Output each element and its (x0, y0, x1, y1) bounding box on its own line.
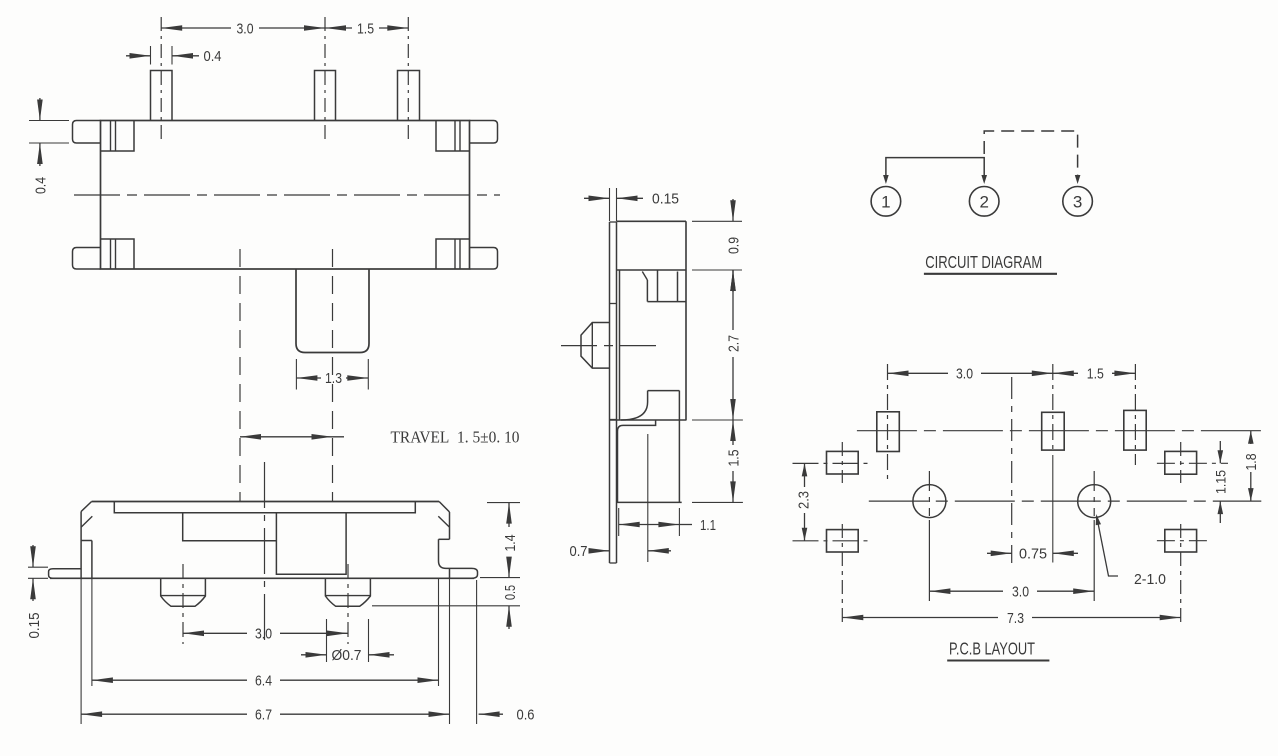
svg-text:1: 1 (881, 192, 890, 211)
dimension 0.75 (pcb) (987, 546, 1078, 563)
pcb: pad 1 (top row left) (877, 412, 900, 452)
svg-text:1.5: 1.5 (1087, 366, 1104, 383)
dimension 0.7 (side view) (570, 543, 672, 560)
top view: pin 2 centerline (324, 17, 326, 139)
side view: knob centerline (561, 345, 663, 347)
svg-text:1.8: 1.8 (1243, 454, 1260, 471)
svg-text:2-1.0: 2-1.0 (1134, 571, 1166, 588)
circuit: arrow at pin 2 (981, 175, 987, 184)
top view: bottom-right inner tab (436, 239, 470, 269)
pcb: pad 2 (top row middle) (1042, 412, 1065, 450)
dimension 0.4 (tab height, left) (29, 98, 69, 194)
svg-text:1.3: 1.3 (325, 370, 342, 387)
dimension 1.4 (body height) (480, 503, 520, 578)
dimension 1.8 (pcb right) (1243, 431, 1260, 501)
pcb: left pads vertical centerlines (841, 442, 843, 626)
side view: terminal centerline (647, 434, 649, 562)
dimension 3.0 (pcb pad pitch) (888, 366, 1053, 383)
front view: right side wall and step (439, 512, 450, 578)
pcb: left upper pad centerline (793, 462, 868, 464)
front view: left side wall and step (81, 512, 92, 579)
side view: body bottom shoulder (609, 419, 743, 421)
svg-text:1.15: 1.15 (1212, 470, 1228, 494)
svg-text:2: 2 (979, 192, 988, 211)
svg-text:0.4: 0.4 (32, 177, 49, 194)
pcb: holes row centerline (869, 500, 1262, 502)
dimension 0.5 (peg height) (372, 585, 520, 629)
top view: bottom-left outer mounting tab (73, 248, 101, 270)
svg-text:3.0: 3.0 (237, 20, 254, 37)
front view: slider slot window (183, 513, 277, 541)
svg-text:3.0: 3.0 (956, 366, 973, 383)
side view: top terminal pin bent over (642, 270, 686, 302)
pcb: central vertical centerline (1011, 377, 1013, 563)
dimension diameter 0.7 (peg) (301, 647, 394, 664)
dimension 3.0 (top view pin pitch) (161, 20, 325, 37)
pcb: left lower pad centerline (793, 540, 868, 542)
pcb: right lower pad centerline (1157, 540, 1207, 542)
pcb: hole vertical centerlines (929, 471, 1094, 601)
top view: terminal pin 1 (151, 71, 173, 121)
svg-text:3.0: 3.0 (1012, 584, 1029, 601)
circuit: terminal 3 circle (1063, 187, 1093, 217)
dimension 6.4 (front view) (92, 673, 439, 690)
pcb: right upper pad (1165, 451, 1197, 474)
top view: top-right inner tab (436, 121, 470, 152)
pcb: top pads row centerline (857, 430, 1261, 432)
top view: terminal pin 2 (315, 71, 336, 121)
svg-text:0.5: 0.5 (502, 585, 519, 600)
top view: bottom-right outer mounting tab (470, 248, 498, 270)
dimension 1.5 (pcb pad pitch) (1053, 366, 1136, 383)
dimension 3.0 (peg pitch) (183, 626, 348, 643)
svg-text:0.9: 0.9 (725, 237, 742, 254)
dimension 0.15 (lead standoff) (26, 545, 48, 639)
top view: pin 3 centerline (407, 17, 409, 139)
side view: metal cover plate (610, 222, 617, 563)
svg-text:0.75: 0.75 (1019, 546, 1047, 563)
side view: body top edge (617, 220, 743, 222)
svg-text:1.5: 1.5 (357, 20, 374, 37)
pcb: pad 1 vertical centerline (887, 364, 889, 483)
front view: peg 2 centerline (347, 564, 349, 644)
svg-text:1.4: 1.4 (502, 535, 519, 552)
pcb: locating hole left (1.0 dia) (913, 485, 946, 518)
dimension 1.5 (terminal height) (725, 420, 742, 502)
front view: right gull-wing lead (446, 568, 478, 578)
svg-text:0.7: 0.7 (570, 543, 588, 560)
side view: body left edge (619, 270, 621, 420)
svg-text:7.3: 7.3 (1007, 610, 1024, 627)
side view: body shoulder (617, 269, 742, 271)
top view: bottom-left inner tab (101, 239, 135, 269)
top view: knob centerline (travel end) (332, 249, 334, 502)
pcb: pad 3 vertical centerline (1134, 364, 1136, 465)
front view: body top edge and chamfers (81, 502, 449, 528)
pcb: right lower pad (1165, 530, 1197, 553)
front view: body bottom baseline (50, 577, 474, 579)
pcb: pad 2 vertical centerline (1052, 364, 1054, 563)
dimension travel arrows (240, 434, 344, 440)
dimension 0.15 (plate thickness) (584, 188, 679, 221)
side view: bottom terminal block (618, 391, 743, 503)
side view: body right edge (685, 221, 687, 420)
label P.C.B LAYOUT (947, 639, 1049, 661)
svg-text:1.5: 1.5 (725, 450, 742, 467)
svg-text:1.1: 1.1 (700, 517, 716, 534)
label CIRCUIT DIAGRAM (924, 252, 1057, 274)
side view: middle terminal pin (621, 391, 679, 420)
svg-text:0.15: 0.15 (26, 613, 43, 639)
svg-text:TRAVEL 1. 5±0. 10: TRAVEL 1. 5±0. 10 (391, 427, 520, 446)
svg-text:Ø0.7: Ø0.7 (332, 647, 362, 664)
svg-text:2.3: 2.3 (795, 491, 812, 509)
dimension 0.4 (pin width) (126, 46, 222, 65)
svg-text:0.4: 0.4 (204, 48, 222, 65)
front view: extension lines below body (81, 578, 477, 724)
svg-text:2.7: 2.7 (725, 335, 742, 352)
top view: top-left outer mounting tab (73, 121, 101, 144)
dimension 1.15 (pcb right) (1212, 441, 1228, 523)
top view: terminal pin 3 (398, 71, 420, 121)
side view: actuator knob (side) (581, 323, 609, 369)
circuit: terminal 2 circle (969, 187, 999, 217)
top view: horizontal centerline (74, 194, 500, 196)
dimension 0.6 (lead protrusion) (479, 707, 535, 724)
top view: top-left inner tab (101, 121, 135, 152)
top view: travel start centerline (239, 249, 241, 502)
circuit: wire from pin 1 to pin 2 (solid) (886, 158, 984, 178)
pcb: left upper pad (827, 451, 859, 474)
svg-text:3.0: 3.0 (255, 626, 272, 643)
front view: knob window (knob at right position) (276, 513, 346, 575)
circuit: wire to pin 3 (dashed, alternate position) (984, 131, 1077, 178)
dimension 3.0 (pcb hole pitch) (929, 584, 1094, 601)
svg-text:3: 3 (1073, 192, 1082, 211)
svg-text:0.15: 0.15 (652, 191, 679, 208)
dimension 2.7 (side view body height) (725, 270, 742, 420)
pcb: right upper pad centerline (1157, 462, 1228, 464)
svg-text:P.C.B LAYOUT: P.C.B LAYOUT (949, 639, 1035, 659)
dimension 0.9 (side view) (725, 199, 742, 292)
front view: left gull-wing lead (49, 569, 82, 579)
dimension 2.3 (pcb left) (795, 463, 812, 540)
svg-text:0.6: 0.6 (517, 707, 535, 724)
label TRAVEL 1.5 +/- 0.10 (391, 427, 520, 446)
pcb: pad 3 (top row right) (1124, 410, 1146, 450)
top view: pin 1 centerline (160, 17, 162, 139)
front view: locating peg 2 (325, 578, 370, 606)
circuit: arrow at pin 3 (1075, 175, 1081, 184)
dimension 1.1 (terminal width) (619, 508, 716, 536)
pcb: left lower pad (827, 530, 859, 552)
circuit: arrow at pin 1 (883, 175, 889, 184)
front view: vertical centerline (264, 462, 266, 641)
front view: locating peg 1 (161, 578, 206, 606)
dimension 1.5 (top view pin pitch) (325, 20, 408, 37)
front view: peg 1 centerline (182, 564, 184, 644)
svg-text:CIRCUIT DIAGRAM: CIRCUIT DIAGRAM (925, 252, 1042, 272)
svg-text:6.4: 6.4 (255, 673, 272, 690)
top view: actuator knob (296, 269, 369, 353)
circuit: terminal 1 circle (871, 187, 901, 217)
dimension 1.3 (knob width) (296, 359, 368, 390)
callout 2-1.0 (hole diameters) (1096, 514, 1166, 588)
pcb: locating hole right (1.0 dia) (1078, 485, 1111, 518)
svg-text:6.7: 6.7 (255, 707, 272, 724)
top view: switch body outline (101, 121, 470, 270)
pcb: right pads vertical centerlines (1180, 442, 1182, 626)
top view: top-right outer mounting tab (470, 121, 498, 144)
dimension 6.7 (front view overall width) (81, 707, 449, 724)
dimension 7.3 (pcb overall) (842, 610, 1180, 627)
